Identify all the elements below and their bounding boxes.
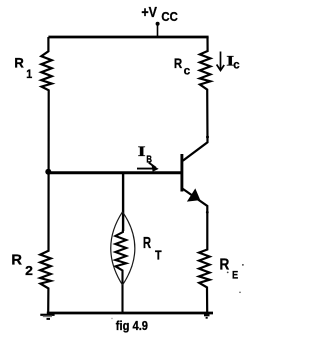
- svg-text:B: B: [146, 154, 152, 165]
- svg-text:+V: +V: [141, 4, 157, 21]
- svg-text:1: 1: [26, 67, 32, 81]
- svg-text:R: R: [143, 235, 152, 252]
- svg-text:R: R: [11, 252, 22, 269]
- svg-text:fig 4.9: fig 4.9: [116, 319, 148, 333]
- svg-text:c: c: [233, 57, 240, 71]
- svg-text:I: I: [138, 144, 146, 160]
- svg-text:R: R: [14, 55, 24, 71]
- svg-text:2: 2: [25, 264, 33, 278]
- svg-text:T: T: [155, 249, 162, 263]
- svg-text:E: E: [232, 270, 238, 282]
- svg-text:R: R: [220, 256, 230, 273]
- svg-text:CC: CC: [161, 10, 177, 24]
- svg-text:R: R: [174, 56, 183, 71]
- svg-text:c: c: [184, 64, 191, 78]
